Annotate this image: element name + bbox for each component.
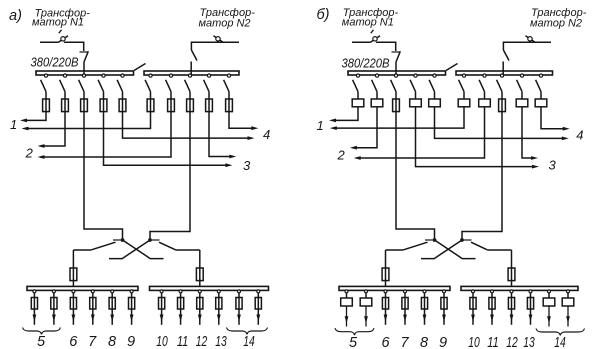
node tap feeder 10	[472, 290, 475, 293]
arrow head feeder 11	[490, 315, 494, 322]
wire feeder L5 drop	[434, 92, 436, 99]
feeder switch blade R4	[517, 80, 522, 92]
bus tie switch blade	[446, 64, 458, 71]
node tap feeder 6	[384, 290, 387, 293]
arrow head line R5	[563, 127, 570, 131]
feeder switch blade L3	[391, 80, 396, 92]
node tap L4 on busbar	[414, 74, 417, 77]
switch QN1 transformer N1 lead	[352, 41, 371, 43]
node tap R4 on busbar	[207, 74, 210, 77]
brace group 5	[23, 328, 61, 335]
wire feeder 7 stub	[404, 293, 406, 298]
fuse feeder 9	[441, 298, 447, 310]
svg-text:14: 14	[243, 334, 255, 349]
svg-text:14: 14	[554, 335, 566, 349]
arrow head line L4	[532, 165, 539, 169]
arrow head feeder 10	[471, 315, 475, 322]
node tap feeder 6	[72, 290, 75, 293]
switch QN1 blade tip	[59, 30, 62, 33]
wire QN1 to bus corner	[376, 42, 396, 51]
arrow head feeder 8	[110, 315, 114, 322]
wire line from L4 to arrow	[104, 112, 227, 166]
svg-text:13: 13	[523, 335, 535, 349]
busbar section 2	[144, 71, 239, 75]
circuit breaker feeder 5b	[360, 298, 372, 306]
arrow head line R1	[22, 127, 29, 131]
wire left riser fixed lead	[386, 249, 404, 251]
svg-text:11: 11	[487, 335, 499, 349]
switch QN2 blade	[526, 36, 536, 43]
feeder switch blade L4	[98, 80, 103, 92]
circuit breaker L2	[371, 99, 383, 107]
wire N1 drop crossing busbar	[83, 70, 85, 76]
node tap L1 on busbar	[356, 74, 359, 77]
wire feeder L2 through protection	[64, 99, 66, 112]
switch QN2 transformer N2 lead	[221, 41, 240, 43]
fuse L4	[100, 99, 107, 112]
svg-text:б): б)	[317, 7, 330, 23]
wire feeder R2 through protection	[170, 99, 172, 112]
svg-text:380/220В: 380/220В	[31, 55, 79, 70]
wire right riser through fuse to busbar	[511, 268, 513, 287]
wire feeder R1 through protection	[150, 99, 152, 112]
fuse R1	[147, 99, 154, 112]
node tap feeder 8	[111, 290, 114, 293]
node tap feeder 5b	[52, 290, 55, 293]
svg-text:1: 1	[317, 118, 324, 133]
wire left riser to fuse	[72, 250, 74, 268]
fuse L1	[43, 99, 50, 112]
node junction right changeover	[148, 238, 152, 242]
wire feeder 13 through fuse	[530, 298, 532, 325]
arrow head line R1	[330, 126, 337, 130]
wire feeder L5 drop	[122, 92, 124, 99]
node tap L1 on busbar	[44, 74, 47, 77]
wire feeder 12 through fuse	[199, 298, 201, 325]
wire feeder 14b outgoing	[567, 306, 569, 327]
wire line from L5 to arrow	[435, 107, 563, 139]
feeder switch blade L3	[79, 80, 84, 92]
node junction left changeover	[121, 238, 125, 242]
wire feeder R3 drop	[501, 92, 503, 99]
wire feeder L3 drop	[83, 92, 85, 99]
wire feeder 10 stub	[472, 293, 474, 298]
wire QN2 to bus corner	[503, 42, 536, 50]
feeder switch blade L2	[372, 80, 377, 92]
svg-text:5: 5	[349, 335, 358, 349]
fuse feeder 14a	[236, 298, 242, 310]
circuit breaker feeder 14b	[562, 298, 574, 306]
svg-text:380/220В: 380/220В	[342, 56, 390, 71]
right changeover fixed contact tick	[152, 239, 160, 241]
wire R3 down-feed to changeover	[150, 112, 190, 239]
busbar section 1 (380/220V)	[36, 71, 134, 75]
circuit breaker R4	[516, 99, 528, 107]
fuse right riser	[196, 268, 203, 281]
wire feeder L4 drop	[415, 92, 417, 99]
fuse feeder 13	[527, 298, 533, 310]
wire feeder 14a stub	[548, 293, 550, 298]
arrow head line L4	[225, 163, 232, 167]
fuse feeder 14b	[255, 298, 261, 310]
fuse feeder 11	[489, 298, 495, 310]
fuse feeder 7	[402, 298, 408, 310]
wire feeder L1 drop	[357, 92, 359, 99]
feeder switch blade R3	[185, 80, 190, 92]
svg-text:4: 4	[263, 127, 270, 142]
wire feeder 13 through fuse	[218, 298, 220, 325]
circuit breaker L1	[352, 99, 364, 107]
arrow head line R5	[251, 126, 258, 130]
right changeover cross blade (open)	[421, 240, 462, 259]
svg-text:12: 12	[196, 334, 208, 349]
switch QN2 blade	[214, 36, 224, 43]
arrow head line R4	[531, 156, 538, 160]
wire QN2 to bus corner	[191, 42, 224, 50]
busbar distribution section 2	[150, 286, 269, 290]
feeder switch blade L1	[353, 80, 358, 92]
wire feeder 5b stub	[365, 293, 367, 298]
svg-text:9: 9	[127, 334, 135, 349]
wire feeder 10 through fuse	[161, 298, 163, 325]
node tap feeder 12	[510, 290, 513, 293]
feeder switch blade L5	[429, 80, 434, 92]
bus tie switch blade	[134, 64, 146, 71]
wire feeder 6 through fuse	[72, 298, 74, 325]
wire left riser through fuse to busbar	[72, 268, 74, 287]
wire right riser fixed lead	[487, 249, 511, 251]
feeder switch blade R5	[224, 80, 229, 92]
node tap feeder 13	[529, 290, 532, 293]
node tap feeder 12	[198, 290, 201, 293]
svg-text:2: 2	[337, 148, 346, 163]
left changeover fixed contact tick	[113, 239, 121, 241]
node junction right changeover	[460, 238, 464, 242]
switch QS2 disconnect blade	[191, 50, 197, 61]
svg-text:матор N1: матор N1	[32, 17, 84, 29]
wire feeder 5b through fuse	[53, 298, 55, 325]
node tap feeder 5b	[365, 290, 368, 293]
fuse feeder 8	[421, 298, 427, 310]
wire N1 drop crossing busbar	[395, 70, 397, 76]
circuit breaker feeder 14a	[543, 298, 555, 306]
left changeover blade (closed to left riser)	[404, 242, 428, 250]
wire line from L2 to arrow	[44, 112, 66, 146]
node tap L2 on busbar	[375, 74, 378, 77]
arrow head line L2	[350, 146, 357, 150]
svg-text:13: 13	[215, 334, 227, 349]
wire feeder 6 stub	[72, 293, 74, 298]
arrow head line L5	[248, 136, 255, 140]
wire feeder R3 drop	[189, 92, 191, 99]
node tap feeder 5a	[33, 290, 36, 293]
node junction left changeover	[433, 238, 437, 242]
wire feeder 8 stub	[424, 293, 426, 298]
fuse L2	[62, 99, 69, 112]
wire feeder R1 drop	[463, 92, 465, 99]
arrow head feeder 10	[160, 315, 164, 322]
wire N2 drop to busbar	[502, 62, 504, 77]
arrow head feeder 14a	[547, 316, 551, 323]
arrow head line R2	[38, 155, 45, 159]
switch QS2 disconnect blade	[503, 50, 509, 61]
fuse feeder 6	[70, 298, 76, 310]
busbar distribution section 2	[461, 286, 578, 290]
wire line from R1 to arrow	[28, 112, 151, 129]
fuse L5	[119, 99, 126, 112]
arrow head feeder 5a	[345, 316, 349, 323]
svg-text:4: 4	[576, 128, 583, 143]
arrow head line R4	[229, 155, 236, 159]
svg-text:11: 11	[177, 334, 189, 349]
wire line from L4 to arrow	[416, 107, 534, 167]
node tap feeder 10	[160, 290, 163, 293]
node tap feeder 14b	[257, 290, 260, 293]
wire feeder 14a outgoing	[548, 306, 550, 327]
wire feeder 5a through fuse	[33, 298, 35, 325]
wire feeder 10 through fuse	[472, 298, 474, 325]
wire feeder L2 drop	[64, 92, 66, 99]
svg-text:9: 9	[439, 335, 447, 349]
svg-text:6: 6	[381, 335, 390, 349]
left changeover blade (closed to left riser)	[91, 242, 115, 250]
svg-text:3: 3	[243, 158, 251, 173]
fuse feeder 10	[470, 298, 476, 310]
wire feeder 11 through fuse	[491, 298, 493, 325]
wire feeder L2 drop	[376, 92, 378, 99]
wire feeder 11 stub	[491, 293, 493, 298]
fuse R2	[168, 99, 175, 112]
fuse feeder 11	[178, 298, 184, 310]
circuit breaker L4	[410, 99, 422, 107]
right changeover cross blade (open)	[109, 240, 150, 259]
wire right riser fixed lead	[176, 249, 200, 251]
wire feeder R3 through fuse	[501, 99, 503, 112]
wire feeder 12 stub	[199, 293, 201, 298]
wire feeder 14a stub	[238, 293, 240, 298]
wire feeder 14a through fuse	[238, 298, 240, 325]
arrow head feeder 14b	[256, 315, 260, 322]
wire feeder R5 through protection	[540, 99, 542, 107]
arrow head feeder 8	[423, 315, 427, 322]
fuse feeder 12	[508, 298, 514, 310]
left changeover cross blade (open)	[123, 240, 164, 259]
wire right riser through fuse to busbar	[199, 268, 201, 287]
wire feeder 9 through fuse	[131, 298, 133, 325]
busbar distribution section 1	[27, 286, 138, 290]
node tap R3 on busbar	[500, 74, 503, 77]
arrow head feeder 7	[403, 315, 407, 322]
circuit breaker R1	[458, 99, 470, 107]
switch QN2 transformer N2 lead	[533, 41, 552, 43]
wire feeder 14b stub	[257, 293, 259, 298]
wire feeder L4 through protection	[415, 99, 417, 107]
node tap R4 on busbar	[520, 74, 523, 77]
node tap R2 on busbar	[169, 74, 172, 77]
arrow head line L2	[38, 144, 45, 148]
wire line from R4 to arrow	[209, 112, 230, 157]
switch QN1 transformer N1 lead	[40, 41, 59, 43]
wire line from R2 to arrow	[360, 107, 485, 158]
node tap feeder 11	[491, 290, 494, 293]
feeder switch blade R3	[497, 80, 502, 92]
arrow head feeder 14a	[237, 315, 241, 322]
fuse feeder 6	[382, 298, 388, 310]
right changeover blade (closed to right riser)	[471, 242, 487, 250]
wire feeder 10 stub	[161, 293, 163, 298]
wire feeder 7 through fuse	[404, 298, 406, 325]
node tap feeder 14a	[238, 290, 241, 293]
node tap feeder 9	[130, 290, 133, 293]
svg-text:10: 10	[468, 335, 480, 349]
circuit breaker R2	[479, 99, 491, 107]
busbar section 1 (380/220V)	[348, 71, 446, 75]
busbar distribution section 1	[339, 286, 450, 290]
left changeover fixed contact tick	[425, 239, 433, 241]
fuse R4	[206, 99, 213, 112]
fuse R3	[499, 99, 506, 112]
wire feeder L5 through protection	[434, 99, 436, 107]
node tap R3 on busbar	[188, 74, 191, 77]
node tap L5 on busbar	[433, 74, 436, 77]
feeder switch blade R1	[459, 80, 464, 92]
svg-text:2: 2	[25, 145, 34, 160]
wire feeder 11 stub	[180, 293, 182, 298]
feeder switch blade R4	[204, 80, 209, 92]
switch QN1 hinge circle	[61, 37, 65, 41]
wire right riser to fuse	[511, 250, 513, 268]
wire QN1 to bus corner	[64, 42, 84, 51]
arrow head feeder 6	[384, 315, 388, 322]
wire feeder L1 through protection	[45, 99, 47, 112]
arrow head feeder 5a	[33, 315, 37, 322]
wire line from L1 to arrow	[26, 112, 46, 121]
svg-text:1: 1	[10, 117, 17, 132]
arrow head feeder 5b	[52, 315, 56, 322]
svg-text:12: 12	[506, 335, 518, 349]
wire feeder 8 through fuse	[111, 298, 113, 325]
fuse R5	[226, 99, 233, 112]
wire feeder L3 through fuse	[83, 99, 85, 112]
wire feeder 9 stub	[131, 293, 133, 298]
wire line from R2 to arrow	[44, 112, 172, 157]
arrow head feeder 13	[529, 315, 533, 322]
svg-text:3: 3	[549, 158, 557, 173]
right changeover fixed contact tick	[464, 239, 472, 241]
wire feeder 9 through fuse	[443, 298, 445, 325]
switch QN2 hinge circle	[528, 37, 532, 41]
node tap feeder 7	[404, 290, 407, 293]
switch QN1 hinge circle	[373, 37, 377, 41]
feeder switch blade L4	[410, 80, 415, 92]
wire feeder 14b stub	[567, 293, 569, 298]
wire line from L1 to arrow	[335, 107, 358, 121]
node tap feeder 13	[217, 290, 220, 293]
node tap R1 on busbar	[462, 74, 465, 77]
wire feeder R1 through protection	[463, 99, 465, 107]
wire N1 drop to busbar	[83, 63, 85, 77]
arrow head feeder 7	[91, 315, 95, 322]
brace group 14	[536, 329, 585, 336]
wire feeder L5 through protection	[122, 99, 124, 112]
node tap feeder 14a	[548, 290, 551, 293]
wire N1 drop to busbar	[395, 63, 397, 77]
wire feeder R2 through protection	[484, 99, 486, 107]
brace group 5	[335, 328, 374, 335]
fuse feeder 9	[129, 298, 135, 310]
switch QN1 blade	[59, 36, 69, 43]
wire feeder 5a stub	[33, 293, 35, 298]
node tap feeder 8	[423, 290, 426, 293]
wire feeder L3 through fuse	[395, 99, 397, 112]
arrow head feeder 11	[179, 315, 183, 322]
wire L3 down-feed to changeover	[396, 112, 435, 239]
circuit breaker L5	[429, 99, 441, 107]
svg-text:5: 5	[37, 334, 46, 349]
switch QS1 contact tick	[80, 51, 88, 53]
svg-text:7: 7	[88, 334, 97, 349]
svg-text:7: 7	[400, 335, 409, 349]
wire feeder L4 through protection	[103, 99, 105, 112]
wire N2 drop crossing busbar	[190, 70, 192, 76]
wire right riser to fuse	[199, 250, 201, 268]
brace group 14	[227, 328, 268, 335]
node tap R1 on busbar	[149, 74, 152, 77]
arrow head feeder 6	[72, 315, 76, 322]
wire feeder L1 drop	[45, 92, 47, 99]
fuse right riser	[508, 268, 515, 281]
wire feeder R5 drop	[228, 92, 230, 99]
wire feeder R1 drop	[150, 92, 152, 99]
left changeover cross blade (open)	[435, 240, 476, 259]
node tap L2 on busbar	[63, 74, 66, 77]
fuse left riser	[70, 268, 77, 281]
node tap feeder 14b	[567, 290, 570, 293]
arrow head feeder 12	[510, 315, 514, 322]
wire line from L5 to arrow	[123, 112, 249, 139]
wire left riser through fuse to busbar	[385, 268, 387, 287]
wire line from R5 to arrow	[541, 107, 564, 129]
fuse L3	[393, 99, 400, 112]
fuse feeder 10	[159, 298, 165, 310]
wire feeder 9 stub	[443, 293, 445, 298]
wire feeder R3 through fuse	[189, 99, 191, 112]
wire feeder 6 through fuse	[385, 298, 387, 325]
wire line from L2 to arrow	[356, 107, 377, 148]
wire feeder R4 through protection	[208, 99, 210, 112]
feeder switch blade R2	[166, 80, 171, 92]
circuit breaker feeder 5a	[341, 298, 353, 306]
right changeover blade (closed to right riser)	[159, 242, 176, 250]
node tap feeder 9	[443, 290, 446, 293]
wire N2 drop crossing busbar	[502, 70, 504, 76]
arrow head line L1	[20, 119, 27, 123]
svg-text:а): а)	[9, 8, 22, 24]
wire feeder R5 drop	[540, 92, 542, 99]
fuse L3	[81, 99, 88, 112]
svg-text:8: 8	[420, 335, 428, 349]
svg-text:матор N1: матор N1	[342, 16, 394, 28]
node tap feeder 5a	[345, 290, 348, 293]
svg-text:10: 10	[156, 334, 168, 349]
node tap L4 on busbar	[102, 74, 105, 77]
wire feeder R4 through protection	[521, 99, 523, 107]
wire feeder 8 stub	[111, 293, 113, 298]
wire feeder R2 drop	[170, 92, 172, 99]
feeder switch blade L1	[41, 80, 46, 92]
fuse feeder 13	[216, 298, 222, 310]
svg-text:матор N2: матор N2	[199, 18, 251, 30]
